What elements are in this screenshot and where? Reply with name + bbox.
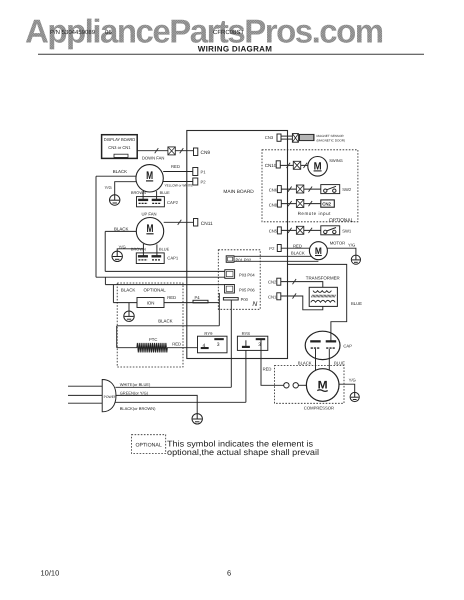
svg-text:CN5: CN5 [269, 229, 278, 234]
legend optional symbol box [132, 435, 166, 454]
svg-text:SWING: SWING [329, 158, 343, 163]
wire vertical P05 to black loop [218, 293, 220, 326]
connector break slash [309, 187, 313, 192]
capacitor C2 box CAP2 [137, 197, 165, 207]
svg-text:SW1: SW1 [342, 228, 352, 233]
capacitor CAP run capacitor [305, 331, 340, 359]
svg-text:DOWN FAN: DOWN FAN [142, 155, 165, 160]
wire red P2 to stepping motor [281, 247, 309, 249]
svg-text:CAP1: CAP1 [167, 256, 179, 261]
power plug prong bottom [68, 402, 102, 404]
svg-text:M: M [146, 170, 153, 182]
connector P03 P04 [225, 270, 235, 279]
svg-text:POWER: POWER [104, 395, 117, 399]
display board PCB1 [102, 135, 138, 159]
svg-text:BLUE: BLUE [159, 247, 170, 252]
motor M1 down fan [136, 165, 163, 192]
dashed connector group box on main board [218, 250, 260, 309]
svg-text:P1: P1 [201, 169, 207, 174]
magnet sensor cable ribbon [300, 134, 315, 140]
dashed OPTIONAL box right [262, 150, 358, 222]
svg-text:P4: P4 [195, 295, 201, 300]
wire black down fan [96, 175, 136, 177]
connector break slash [288, 228, 292, 233]
svg-text:CN6: CN6 [269, 187, 278, 192]
wire yellow to P2 [163, 181, 193, 183]
wire ION ground tap [128, 303, 130, 312]
transformer core [311, 295, 335, 298]
svg-text:CN2: CN2 [322, 202, 331, 207]
svg-text:MOTOR: MOTOR [330, 241, 346, 246]
wire RY8 pin3 to overload [261, 340, 284, 386]
svg-text:CN8: CN8 [269, 203, 278, 208]
wire down fan to CAP2 blue [156, 191, 158, 200]
wire neutral P00 to power white [230, 300, 232, 387]
svg-text:CN10: CN10 [265, 163, 277, 168]
PTC heater element [137, 343, 167, 353]
ground down fan [110, 195, 120, 205]
svg-text:CN1: CN1 [268, 294, 277, 299]
svg-text:P2: P2 [201, 180, 207, 185]
svg-text:WHITE(or BLUE): WHITE(or BLUE) [120, 382, 151, 387]
connector CN1 transformer [277, 293, 281, 300]
connector CN11 [194, 219, 198, 227]
wire green to ground [116, 395, 197, 413]
svg-text:OPTIONAL: OPTIONAL [144, 288, 167, 293]
svg-text:RY8: RY8 [242, 331, 251, 336]
connector P4 bar [193, 300, 208, 303]
svg-text:RED: RED [171, 164, 180, 169]
connector CN6 [277, 186, 281, 193]
capacitor C1 box CAP1 [136, 253, 164, 264]
relay RY9 box [198, 336, 228, 353]
main board U1 outline [187, 131, 288, 359]
svg-text:N: N [252, 301, 257, 308]
svg-text:BLUE: BLUE [334, 360, 345, 365]
wire P02 [234, 260, 318, 262]
connector break slash [287, 163, 291, 168]
ground compressor [350, 392, 359, 401]
svg-text:COMPRESSOR: COMPRESSOR [304, 406, 334, 411]
wire P01 black to stepping motor [234, 255, 311, 257]
svg-text:M: M [147, 223, 154, 235]
svg-text:3: 3 [217, 342, 220, 348]
switch SW1 [321, 226, 340, 235]
inline connector plug SW2 [296, 185, 303, 193]
connector CN5 [277, 227, 281, 234]
compressor dashed box [275, 366, 345, 404]
power plug [102, 380, 116, 412]
wire tap to ion circuit [104, 277, 106, 284]
svg-text:BROWN: BROWN [131, 190, 146, 195]
svg-text:P00: P00 [241, 297, 249, 302]
magnet sensor plug X2 [292, 134, 298, 143]
svg-text:CAP2: CAP2 [167, 200, 179, 205]
connector break slash [293, 279, 297, 284]
svg-text:CN9: CN9 [201, 150, 211, 156]
svg-text:6: 6 [227, 569, 231, 578]
svg-text:YELLOW or WHITE: YELLOW or WHITE [165, 184, 193, 188]
wire red to P1 [163, 171, 193, 173]
power plug prong middle [68, 394, 102, 396]
ground stepping motor [351, 255, 360, 264]
svg-text:MAGNET SENSOR: MAGNET SENSOR [317, 134, 345, 138]
connector break slash [309, 228, 313, 233]
connector break slash [309, 201, 313, 206]
svg-text:CAP: CAP [343, 344, 352, 349]
wire ION to P4 and P05 drop [164, 302, 219, 304]
connector CN10 [276, 161, 280, 168]
dashed optional box around ION and PTC [117, 283, 183, 367]
connector P00 [223, 298, 238, 300]
connector break slash [155, 148, 159, 153]
svg-text:optional,the actual shape shal: optional,the actual shape shall prevail [167, 447, 319, 457]
svg-text:Y/G: Y/G [349, 378, 356, 383]
wire display board to CN9 [137, 150, 193, 152]
svg-text:Remote input: Remote input [298, 211, 332, 216]
svg-text:GREEN(or Y/G): GREEN(or Y/G) [120, 391, 149, 396]
wire ion feed to P05 [105, 284, 224, 286]
wire up fan to CAP1 blue [156, 244, 158, 256]
transformer secondary coil [311, 300, 335, 302]
connector P01 P02 [226, 256, 234, 262]
wire CN8 to remote connector [281, 203, 321, 205]
motor M4 stepping [309, 242, 327, 260]
svg-text:CFRC08ST: CFRC08ST [213, 29, 244, 36]
wire CN10 to swing motor [280, 164, 308, 166]
wire to ION box [113, 302, 137, 304]
svg-text:BLACK: BLACK [291, 251, 305, 256]
transformer primary coil [313, 291, 331, 293]
svg-text:3: 3 [258, 342, 261, 348]
svg-text:(MAGNETIC DOOR): (MAGNETIC DOOR) [317, 138, 346, 142]
inline connector plug swing [293, 161, 300, 169]
wire black loop horizontal [117, 325, 220, 327]
wire up fan ground lead [117, 249, 143, 251]
ION generator box [137, 298, 164, 308]
svg-text:OPTIONAL: OPTIONAL [135, 443, 161, 449]
overload protector compressor [284, 383, 307, 388]
wire black up fan [105, 230, 136, 232]
connector break slash [293, 293, 297, 298]
connector break slash [304, 163, 308, 168]
connector P2 [193, 178, 198, 185]
svg-text:P01 P02: P01 P02 [236, 257, 252, 262]
svg-text:M: M [318, 380, 328, 392]
svg-text:SW2: SW2 [342, 187, 352, 192]
wire cap blue to compressor [328, 349, 330, 370]
ground ION [124, 311, 134, 321]
svg-text:RY9: RY9 [204, 331, 213, 336]
inline connector plug remote [296, 200, 303, 208]
wire white or blue to neutral [115, 386, 231, 388]
svg-text:Y/G: Y/G [105, 185, 112, 190]
wire stepping motor to ground y/g [327, 248, 356, 255]
transformer T1 box [309, 287, 337, 306]
ground power cord [192, 414, 202, 424]
svg-text:BLACK: BLACK [158, 318, 172, 323]
svg-text:Y/G: Y/G [348, 242, 355, 247]
svg-text:BROWN: BROWN [131, 247, 146, 252]
wire up fan black to P03 [105, 270, 225, 272]
wire left vertical up fan black [104, 231, 106, 271]
wire down fan ground lead [115, 182, 137, 195]
svg-text:BLACK: BLACK [298, 360, 312, 365]
svg-text:BLACK(or BROWN): BLACK(or BROWN) [120, 406, 156, 411]
svg-text:PTC: PTC [149, 337, 157, 342]
relay RY8 box [237, 336, 267, 350]
connector P05 P06 [225, 285, 235, 294]
svg-text:4: 4 [203, 343, 206, 349]
svg-text:RED: RED [172, 342, 181, 347]
svg-text:OPTIONAL: OPTIONAL [329, 217, 354, 223]
svg-text:CN3 or CN1: CN3 or CN1 [108, 145, 131, 150]
connector break slash [288, 201, 292, 206]
svg-text:ION: ION [147, 301, 155, 306]
wire drop to ION row [112, 285, 114, 303]
header rule [38, 53, 424, 55]
wire down fan black to P04 [96, 276, 225, 278]
remote input connector CN2 box [321, 200, 335, 207]
inline connector plug SW1 [296, 226, 303, 234]
svg-text:BLACK: BLACK [121, 288, 135, 293]
connector CN9 [194, 148, 198, 156]
svg-text:10/10: 10/10 [41, 569, 60, 578]
svg-text:DISPLAY BOARD: DISPLAY BOARD [104, 137, 135, 142]
svg-text:P2: P2 [269, 246, 275, 251]
connector break slash [180, 148, 184, 153]
power plug prong top [68, 385, 102, 387]
wire power black to RY8 [245, 350, 247, 402]
svg-text:WIRING DIAGRAM: WIRING DIAGRAM [198, 45, 272, 54]
svg-text:CN3: CN3 [265, 135, 274, 140]
wire CN5 to SW1 [281, 229, 321, 231]
wire CN1 to transformer secondary [281, 296, 323, 310]
wire CN2 to transformer primary [281, 282, 323, 288]
svg-text:BLUE: BLUE [351, 301, 362, 306]
svg-text:BLACK: BLACK [114, 226, 128, 231]
svg-text:M: M [315, 246, 322, 257]
wire cap black to compressor [315, 349, 317, 371]
wire up fan to CN11 [164, 221, 194, 223]
wire CN6 to SW2 [281, 188, 321, 190]
wire pair CN3 to magnet sensor [281, 136, 292, 139]
svg-text:Y/G: Y/G [119, 244, 126, 249]
connector break slash [288, 187, 292, 192]
connector P2 stepping motor [277, 245, 281, 252]
motor M3 swing [308, 157, 328, 177]
wire to PTC [117, 347, 137, 349]
wire PTC red to RY9 [167, 347, 198, 349]
svg-text:M: M [314, 160, 322, 172]
svg-text:RED: RED [167, 295, 176, 300]
inline connector plug X1 [168, 147, 175, 155]
switch SW2 [321, 185, 340, 194]
connector P1 [193, 168, 198, 176]
svg-text:BLACK: BLACK [113, 169, 127, 174]
svg-text:UP FAN: UP FAN [142, 212, 157, 217]
svg-text:P03 P04: P03 P04 [239, 272, 255, 277]
connector CN8 [277, 200, 281, 207]
wire black or brown to RY8 [115, 401, 246, 403]
wire compressor to ground y/g [339, 384, 355, 392]
wire black loop left vertical [116, 326, 118, 348]
svg-text:BLUE: BLUE [160, 190, 171, 195]
motor M5 compressor [306, 369, 339, 402]
ground up fan [112, 251, 122, 261]
svg-text:MAIN BOARD: MAIN BOARD [223, 189, 254, 195]
svg-text:RED: RED [293, 243, 302, 248]
svg-text:CN2: CN2 [268, 280, 277, 285]
connector break slash [178, 220, 182, 225]
wire up fan to CAP1 brown [142, 244, 144, 256]
connector CN3 [277, 134, 281, 141]
wire down fan to CAP2 brown [142, 191, 144, 200]
svg-text:P05 P06: P05 P06 [239, 287, 255, 292]
svg-text:P/N 5304459089 06: P/N 5304459089 06 [50, 29, 112, 36]
wire left vertical down fan black [95, 176, 97, 277]
svg-text:TRANSFORMER: TRANSFORMER [306, 275, 340, 280]
svg-text:CN11: CN11 [201, 221, 213, 227]
connector CN2 transformer [277, 278, 281, 285]
svg-text:RED: RED [263, 366, 272, 371]
motor M2 up fan [136, 218, 163, 245]
wire board edge to compressor blue feed [287, 264, 346, 341]
